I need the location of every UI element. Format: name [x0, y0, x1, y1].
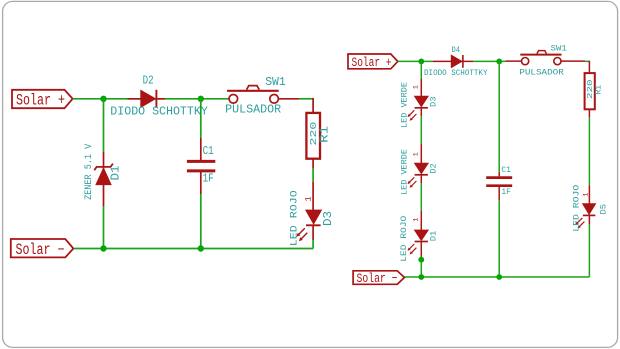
svg-text:D2: D2	[143, 75, 154, 88]
value label 220	[308, 122, 319, 146]
wire: top rail left circuit	[73, 98, 314, 100]
pushbutton switch SW1 (left)	[227, 86, 299, 104]
svg-text:1: 1	[412, 152, 419, 156]
wire: bottom rail left circuit	[74, 248, 313, 250]
zener diode D1	[94, 152, 113, 206]
wire: capacitor branch (right)	[498, 61, 500, 277]
wire: LED chain branch	[420, 61, 422, 277]
pushbutton switch SW1 (right)	[505, 51, 585, 65]
net flag Solar + (left)	[12, 90, 73, 110]
svg-text:D5: D5	[600, 204, 609, 215]
LED D3 (left)	[296, 210, 321, 241]
wire: zener branch vertical	[103, 99, 105, 249]
svg-text:PULSADOR: PULSADOR	[225, 103, 281, 116]
svg-text:D2: D2	[430, 163, 439, 174]
value label LED ROJO (D1)	[400, 215, 409, 261]
svg-text:SW1: SW1	[551, 44, 567, 53]
svg-text:R1: R1	[595, 85, 604, 95]
svg-text:DIODO SCHOTTKY: DIODO SCHOTTKY	[424, 69, 488, 78]
svg-text:R1: R1	[318, 126, 331, 143]
wire: D5 to bottom rail	[588, 224, 590, 277]
LED D1 (right, LED ROJO)	[408, 211, 429, 257]
svg-text:1F: 1F	[501, 188, 511, 197]
name label D1 (right)	[429, 231, 438, 242]
pin 1 of D1 (right)	[412, 218, 419, 222]
svg-text:Solar +: Solar +	[16, 92, 65, 110]
LED D3 (right, LED VERDE)	[408, 79, 429, 121]
capacitor C1 (right)	[486, 172, 512, 200]
svg-text:1: 1	[412, 218, 419, 222]
value label LED VERDE (D3)	[400, 82, 409, 128]
svg-text:D3: D3	[429, 96, 438, 107]
name label D2 (right)	[430, 163, 439, 174]
node junction capacitor branch (top)	[496, 59, 502, 65]
wire: right branch down to resistor	[588, 61, 590, 73]
svg-text:1: 1	[303, 196, 313, 201]
value label LED ROJO	[289, 190, 300, 246]
svg-text:1F: 1F	[203, 173, 214, 186]
svg-text:D1: D1	[109, 165, 122, 180]
pin 1 of D3	[303, 196, 313, 201]
wire: resistor to LED D5	[588, 109, 590, 203]
net flag Solar - (left)	[11, 239, 74, 259]
svg-text:1: 1	[583, 193, 590, 197]
LED D2 (right, LED VERDE)	[408, 144, 429, 188]
svg-text:PULSADOR: PULSADOR	[519, 69, 564, 78]
node junction capacitor branch (bottom)	[496, 274, 502, 280]
node junction LED branch (top)	[418, 59, 424, 65]
svg-text:Solar +: Solar +	[352, 55, 392, 70]
svg-text:LED VERDE: LED VERDE	[400, 82, 409, 128]
node junction at capacitor branch (top)	[198, 96, 204, 102]
resistor R1 (left)	[306, 113, 320, 159]
wire: LED to bottom rail	[312, 240, 314, 249]
name label D3 (right)	[429, 96, 438, 107]
pin 1 of D2 (right)	[412, 152, 419, 156]
wire: bottom rail right circuit	[404, 276, 589, 278]
svg-text:D1: D1	[429, 231, 438, 242]
capacitor C1 (left)	[187, 138, 215, 194]
name label D1	[109, 165, 122, 180]
pin 1 of D5	[583, 193, 590, 197]
svg-text:C1: C1	[501, 166, 511, 175]
node junction capacitor branch (bottom)	[198, 245, 204, 251]
value label LED VERDE (D2)	[400, 149, 409, 195]
wire: right branch of left circuit	[312, 98, 314, 210]
svg-text:D3: D3	[322, 211, 335, 226]
svg-text:LED VERDE: LED VERDE	[400, 149, 409, 195]
value label 220 (right)	[587, 79, 595, 99]
svg-text:1: 1	[412, 85, 419, 89]
svg-text:C1: C1	[203, 145, 214, 158]
svg-text:LED ROJO: LED ROJO	[289, 190, 300, 246]
value label LED ROJO (D5)	[573, 185, 582, 232]
name label R1	[318, 126, 331, 143]
svg-text:D4: D4	[452, 46, 461, 55]
node junction at zener branch (top)	[100, 96, 106, 102]
schottky diode D4	[433, 55, 473, 68]
net flag Solar - (right)	[353, 271, 404, 286]
node junction LED branch (bottom)	[418, 274, 424, 280]
pin 1 of D3 (right)	[412, 85, 419, 89]
svg-text:ZENER 5.1 V: ZENER 5.1 V	[84, 144, 95, 200]
LED D5	[576, 204, 596, 229]
svg-text:LED ROJO: LED ROJO	[573, 185, 582, 232]
node junction zener branch (bottom)	[100, 245, 106, 251]
name label R1 (right)	[595, 85, 604, 95]
svg-text:SW1: SW1	[265, 76, 286, 89]
name label D3	[322, 211, 335, 226]
value label ZENER 5.1 V	[84, 144, 95, 200]
node junction below D1	[418, 257, 424, 263]
svg-text:Solar −: Solar −	[16, 241, 65, 259]
name label D5	[600, 204, 609, 215]
wire: top rail right circuit	[398, 60, 590, 62]
svg-text:Solar −: Solar −	[357, 271, 398, 286]
net flag Solar + (right)	[348, 54, 398, 70]
resistor R1 (right)	[585, 73, 595, 109]
svg-text:DIODO SCHOTTKY: DIODO SCHOTTKY	[110, 106, 208, 119]
schottky diode D2	[128, 90, 166, 108]
svg-text:LED ROJO: LED ROJO	[400, 215, 409, 261]
wire: capacitor branch vertical	[200, 99, 202, 249]
